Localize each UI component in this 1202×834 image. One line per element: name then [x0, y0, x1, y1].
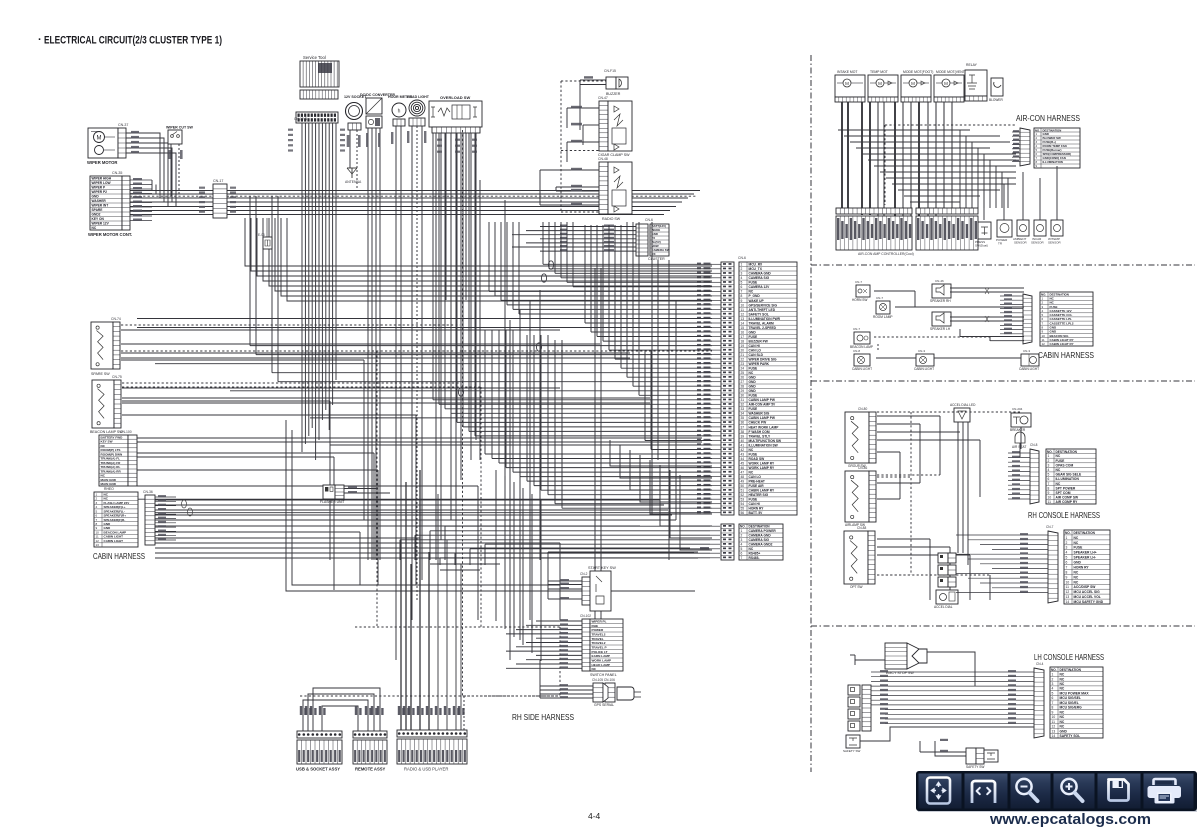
component: FLASHER UNIT: [323, 485, 335, 499]
svg-text:BATT. 5V: BATT. 5V: [749, 511, 764, 515]
svg-text:12: 12: [1052, 725, 1056, 729]
svg-text:CABIN HARNESS: CABIN HARNESS: [93, 552, 145, 561]
svg-text:CN-12 B: CN-12 B: [294, 117, 308, 121]
svg-text:1: 1: [1052, 673, 1054, 677]
svg-text:SWITCH PANEL: SWITCH PANEL: [590, 673, 617, 677]
svg-text:GND: GND: [92, 195, 100, 199]
svg-text:F WASH COM: F WASH COM: [749, 430, 770, 434]
svg-text:7: 7: [1052, 701, 1054, 705]
table: rh console destinations: [1046, 449, 1096, 504]
wire: wiper cut sw leads: [170, 144, 172, 196]
svg-text:1: 1: [741, 263, 743, 267]
svg-text:CAN LO: CAN LO: [749, 349, 762, 353]
svg-text:SENSOR: SENSOR: [1048, 241, 1062, 245]
svg-text:SPEAKER LH+: SPEAKER LH+: [1074, 551, 1097, 555]
svg-text:BEACON LAMP SW: BEACON LAMP SW: [90, 430, 123, 434]
svg-text:CN-105 CN-106: CN-105 CN-106: [592, 678, 615, 682]
wire: cluster pin stubs: [712, 263, 721, 265]
svg-text:35: 35: [741, 416, 745, 420]
svg-text:43: 43: [741, 452, 745, 456]
svg-text:8: 8: [1066, 570, 1068, 574]
svg-text:CN-17: CN-17: [213, 179, 223, 183]
svg-text:ELECTRICAL CIRCUIT(2/3 CLUSTER: ELECTRICAL CIRCUIT(2/3 CLUSTER TYPE 1): [44, 35, 222, 47]
wire: cigar clamp leads: [567, 107, 599, 109]
svg-text:NC: NC: [749, 470, 754, 474]
svg-text:53: 53: [741, 498, 745, 502]
svg-text:27: 27: [741, 380, 745, 384]
svg-text:CN-7: CN-7: [1046, 525, 1054, 529]
svg-text:CN-48: CN-48: [598, 157, 608, 161]
svg-text:DESTINATION: DESTINATION: [1060, 668, 1082, 672]
connector CN-211: [1020, 128, 1030, 166]
svg-text:10: 10: [1052, 715, 1056, 719]
svg-text:CABIN LIGHT: CABIN LIGHT: [104, 539, 124, 543]
svg-text:GND2: GND2: [92, 213, 101, 217]
svg-text:42: 42: [741, 448, 745, 452]
wire: sensor drops: [983, 190, 985, 220]
section divider dashed 1: [811, 264, 1195, 266]
wire dashed: aircon dashed box: [885, 124, 1016, 126]
svg-text:M: M: [911, 81, 915, 86]
svg-text:2: 2: [741, 267, 743, 271]
wire bus: left switch runs: [121, 324, 460, 326]
connector: EMCY STOP SW: [885, 643, 907, 669]
wire dashed: buzzer-cigar-radio dashed frame: [560, 81, 562, 212]
svg-text:WIPER CUT SW: WIPER CUT SW: [166, 126, 194, 130]
svg-text:CAMERA SIG: CAMERA SIG: [749, 276, 770, 280]
svg-text:WIPER P2: WIPER P2: [92, 190, 108, 194]
table: lh console destinations: [1050, 667, 1103, 738]
svg-text:7: 7: [741, 556, 743, 560]
svg-text:PRE-HEAT: PRE-HEAT: [749, 480, 765, 484]
svg-text:10: 10: [1048, 496, 1052, 500]
svg-text:NC: NC: [749, 371, 754, 375]
svg-text:1: 1: [1066, 536, 1068, 540]
wire bus: aircon risers to CN-211: [959, 130, 961, 208]
svg-text:56: 56: [741, 511, 745, 515]
svg-text:5: 5: [1066, 556, 1068, 560]
wire: service tool row ticks: [288, 129, 293, 131]
svg-text:39: 39: [741, 434, 745, 438]
svg-text:32: 32: [741, 403, 745, 407]
svg-text:9: 9: [741, 299, 743, 303]
svg-text:GND: GND: [749, 385, 757, 389]
svg-text:P_GND: P_GND: [749, 294, 761, 298]
svg-text:ILLUMINATION: ILLUMINATION: [1056, 477, 1080, 481]
svg-text:NC: NC: [1060, 677, 1065, 681]
svg-text:RS485-: RS485-: [749, 556, 760, 560]
svg-text:SW(Dual): SW(Dual): [975, 244, 988, 248]
svg-text:CABIN LIGHT: CABIN LIGHT: [1019, 367, 1039, 371]
svg-text:CN-37: CN-37: [118, 123, 128, 127]
svg-text:NC: NC: [1056, 468, 1061, 472]
svg-text:51: 51: [741, 489, 745, 493]
svg-text:M: M: [845, 81, 849, 86]
wire labels: bottom riser tags: [300, 706, 302, 715]
wire bus: left risers: [363, 360, 365, 520]
svg-text:47: 47: [741, 470, 745, 474]
svg-text:GPS SERIAL: GPS SERIAL: [594, 703, 614, 707]
svg-text:17: 17: [741, 335, 745, 339]
svg-text:NC: NC: [1060, 725, 1065, 729]
connector E-06: [263, 237, 272, 249]
svg-text:5: 5: [741, 547, 743, 551]
svg-text:CABIN LIGHT RY: CABIN LIGHT RY: [1050, 342, 1074, 346]
svg-text:HEAT WORK LAMP: HEAT WORK LAMP: [749, 425, 780, 429]
wire: socket leads: [349, 130, 351, 168]
svg-text:ROOM LAMP: ROOM LAMP: [873, 315, 892, 319]
svg-text:MCU ACCEL VOL: MCU ACCEL VOL: [1074, 595, 1101, 599]
svg-text:52: 52: [741, 493, 745, 497]
wire: wiper motor to bus: [126, 133, 160, 191]
svg-text:HORN RY: HORN RY: [1074, 566, 1090, 570]
svg-text:7: 7: [1048, 482, 1050, 486]
svg-text:OPAS COM: OPAS COM: [1056, 463, 1074, 467]
svg-text:CN-100: CN-100: [120, 430, 132, 434]
wire: radio sw leads: [540, 169, 599, 171]
switch: SAFETY SW lh: [846, 735, 860, 748]
svg-text:4-4: 4-4: [588, 811, 601, 821]
svg-text:MCU_TX: MCU_TX: [749, 267, 763, 271]
svg-text:SPARE: SPARE: [92, 208, 104, 212]
svg-text:8: 8: [1052, 706, 1054, 710]
svg-text:SPEAKER RH: SPEAKER RH: [930, 299, 951, 303]
svg-text:NC: NC: [749, 290, 754, 294]
svg-text:6: 6: [1052, 696, 1054, 700]
svg-text:M: M: [97, 136, 102, 142]
connector: RADIO & USB PLAYER: [397, 730, 467, 737]
switch: OPT SW: [844, 531, 868, 584]
svg-text:TRAVEL ALARM: TRAVEL ALARM: [749, 321, 775, 325]
svg-text:MCU SIG/SEL: MCU SIG/SEL: [1060, 696, 1081, 700]
wire bus: rh console wiring: [877, 415, 940, 417]
svg-text:AIR SEAT: AIR SEAT: [1012, 445, 1026, 449]
switch: SPARE SW: [91, 322, 113, 369]
svg-text:SENSOR: SENSOR: [1031, 241, 1045, 245]
svg-text:37: 37: [741, 425, 745, 429]
motor M1 wiper motor: [88, 128, 118, 158]
svg-text:3: 3: [1066, 546, 1068, 550]
svg-text:DESTINATION: DESTINATION: [749, 525, 771, 529]
svg-text:FUSE: FUSE: [749, 335, 759, 339]
svg-text:FUSE: FUSE: [749, 367, 759, 371]
svg-text:NC: NC: [1074, 575, 1079, 579]
svg-text:NC: NC: [1060, 715, 1065, 719]
svg-text:16: 16: [741, 330, 745, 334]
connector CN-12B: [296, 112, 338, 123]
speaker: SPEAKER LH: [932, 312, 951, 326]
svg-text:23: 23: [741, 362, 745, 366]
svg-text:RS485+: RS485+: [749, 552, 761, 556]
toolbar icon: print: [1154, 779, 1176, 785]
svg-text:BUZZER PW: BUZZER PW: [749, 339, 769, 343]
svg-text:50: 50: [741, 484, 745, 488]
svg-text:CN-36: CN-36: [143, 490, 153, 494]
svg-text:RADIO & USB PLAYER: RADIO & USB PLAYER: [404, 767, 448, 772]
svg-text:GPS/SERVICE SIG: GPS/SERVICE SIG: [749, 303, 778, 307]
svg-text:CN-6: CN-6: [645, 218, 653, 222]
svg-text:OVERLOAD SW: OVERLOAD SW: [440, 95, 470, 100]
wire bus: cabin section wiring: [874, 290, 915, 292]
wire dashed: rh console dashed frame: [910, 412, 912, 575]
svg-text:WIPER PARK: WIPER PARK: [749, 362, 770, 366]
svg-text:CN-74: CN-74: [111, 317, 121, 321]
svg-text:HEATER SIG: HEATER SIG: [749, 493, 769, 497]
svg-text:45: 45: [741, 461, 745, 465]
svg-text:REMOTE ASSY: REMOTE ASSY: [355, 767, 386, 772]
svg-text:NC: NC: [1056, 454, 1061, 458]
antenna symbol: [351, 168, 353, 178]
svg-text:CAMERA SIG: CAMERA SIG: [749, 538, 770, 542]
svg-text:ACCEL DIAL: ACCEL DIAL: [934, 605, 953, 609]
svg-text:9: 9: [1048, 491, 1050, 495]
svg-text:4: 4: [1048, 468, 1050, 472]
svg-text:CN-35: CN-35: [112, 171, 122, 175]
wire: flasher leads: [344, 488, 378, 490]
svg-text:ACC/DISP SW: ACC/DISP SW: [1074, 585, 1097, 589]
wire: cabin table leads: [155, 496, 176, 498]
svg-text:7: 7: [741, 290, 743, 294]
svg-text:DESTINATION: DESTINATION: [1074, 531, 1096, 535]
wire: rh console risers: [899, 452, 901, 499]
connector: USB & SOCKET ASSY: [297, 731, 342, 738]
wire bus: rh-side elbow staircase: [610, 440, 712, 466]
svg-text:2: 2: [1052, 677, 1054, 681]
svg-text:ILLUMINATION SW: ILLUMINATION SW: [749, 443, 779, 447]
svg-text:NC: NC: [1074, 580, 1079, 584]
svg-text:WORK LAMP RY: WORK LAMP RY: [749, 461, 775, 465]
svg-text:GND: GND: [749, 330, 757, 334]
toolbar icon: fit page: [927, 778, 950, 804]
svg-text:2: 2: [1048, 459, 1050, 463]
svg-text:NC: NC: [1060, 673, 1065, 677]
svg-text:NC: NC: [1060, 710, 1065, 714]
svg-text:20: 20: [741, 349, 745, 353]
svg-text:NO.: NO.: [1051, 668, 1057, 672]
svg-text:WIPER MOTOR CONT.: WIPER MOTOR CONT.: [88, 232, 132, 237]
svg-text:MCU POWER MAX: MCU POWER MAX: [1060, 692, 1090, 696]
wire: emcy leads: [855, 659, 885, 661]
svg-text:3: 3: [741, 538, 743, 542]
wire dashed: lower dashed runs: [355, 626, 560, 628]
svg-text:ANTI-THEFT LED: ANTI-THEFT LED: [749, 308, 776, 312]
svg-text:CN-8: CN-8: [853, 349, 860, 353]
svg-text:CN-7: CN-7: [876, 296, 883, 300]
svg-text:22: 22: [741, 358, 745, 362]
svg-text:33: 33: [741, 407, 745, 411]
svg-text:FUSE: FUSE: [1056, 459, 1066, 463]
svg-text:CABIN LIGHT: CABIN LIGHT: [914, 367, 934, 371]
svg-text:41: 41: [741, 443, 745, 447]
svg-text:BLOWER: BLOWER: [989, 98, 1004, 102]
svg-text:FUSE AIR: FUSE AIR: [749, 484, 765, 488]
svg-text:CN-2: CN-2: [580, 572, 588, 576]
svg-text:AIR-CON AMP CONTROLLER(Cool): AIR-CON AMP CONTROLLER(Cool): [858, 252, 914, 256]
wire: camera pin stubs: [710, 525, 720, 527]
svg-text:CN-8: CN-8: [1030, 443, 1038, 447]
svg-text:12: 12: [1066, 590, 1070, 594]
wire loops: twisted pair marks: [548, 261, 553, 269]
svg-text:5: 5: [1048, 473, 1050, 477]
svg-text:CN-F15: CN-F15: [604, 69, 616, 73]
sensor: INCAR SENSOR: [1034, 220, 1046, 236]
svg-text:GND: GND: [1074, 561, 1082, 565]
switch: GROUP SW: [845, 412, 869, 463]
svg-text:·: ·: [38, 34, 42, 46]
svg-text:TRAVEL2: TRAVEL2: [592, 641, 606, 645]
connector CN-40: [1023, 294, 1032, 344]
wire: safety sw leads2: [920, 751, 966, 753]
svg-text:MODE MOT(FOOT): MODE MOT(FOOT): [903, 70, 933, 74]
table: cabin harness destinations (right): [1040, 292, 1093, 346]
svg-text:CABIN LAMP PW: CABIN LAMP PW: [749, 398, 776, 402]
svg-text:MAIN GND: MAIN GND: [101, 482, 117, 486]
svg-text:AIR-CON AMP 5V: AIR-CON AMP 5V: [749, 403, 777, 407]
svg-text:ILLUMINATION: ILLUMINATION: [1043, 160, 1063, 164]
component: BLOWER: [991, 78, 1003, 96]
svg-text:ROAD SW: ROAD SW: [749, 457, 766, 461]
svg-text:CN-6: CN-6: [738, 256, 746, 260]
wire bus: lower horizontals: [548, 551, 698, 553]
wire: big loop wire: [286, 420, 695, 591]
connector strip below service tool: [300, 90, 338, 99]
svg-text:AIR COMP SW: AIR COMP SW: [1056, 496, 1080, 500]
svg-text:5: 5: [1052, 692, 1054, 696]
svg-text:1: 1: [741, 529, 743, 533]
svg-text:NC: NC: [1074, 536, 1079, 540]
toolbar icon: save floppy: [1109, 780, 1129, 801]
svg-text:3: 3: [741, 272, 743, 276]
svg-text:CAMERA POWER: CAMERA POWER: [749, 529, 777, 533]
svg-text:38: 38: [741, 430, 745, 434]
svg-text:NC: NC: [592, 667, 597, 671]
svg-text:13: 13: [96, 543, 100, 547]
svg-text:GND: GND: [749, 389, 757, 393]
connector CN-36: [145, 495, 155, 545]
svg-text:CN-46: CN-46: [935, 279, 944, 283]
svg-text:CABIN LAMP PW: CABIN LAMP PW: [749, 416, 776, 420]
wire: head light leads: [411, 126, 413, 620]
switch: BEACON LAMP SW: [92, 380, 114, 428]
toolbar background: [916, 771, 1197, 811]
svg-text:WIPER DRIVE SIG: WIPER DRIVE SIG: [749, 358, 777, 362]
svg-text:WIPER P: WIPER P: [92, 186, 107, 190]
svg-text:13: 13: [1066, 595, 1070, 599]
wire: buzzer leads: [580, 79, 606, 81]
svg-text:FUSE: FUSE: [749, 394, 759, 398]
connector table: RHEO: [99, 435, 128, 486]
svg-text:CN-3: CN-3: [1023, 349, 1030, 353]
svg-text:WIPER HIGH: WIPER HIGH: [92, 177, 112, 181]
svg-text:SENSOR: SENSOR: [1014, 241, 1028, 245]
svg-text:CHECK PW: CHECK PW: [749, 421, 768, 425]
svg-text:NC: NC: [749, 547, 754, 551]
svg-text:14: 14: [1066, 600, 1070, 604]
svg-text:M: M: [878, 81, 882, 86]
svg-text:WIPER MOTOR: WIPER MOTOR: [87, 160, 117, 165]
svg-text:DESTINATION: DESTINATION: [1056, 450, 1078, 454]
svg-text:RH SIDE HARNESS: RH SIDE HARNESS: [512, 713, 574, 722]
svg-text:31: 31: [741, 398, 745, 402]
svg-text:START KEY SW: START KEY SW: [588, 566, 616, 570]
svg-text:30: 30: [741, 394, 745, 398]
svg-text:NC: NC: [1074, 541, 1079, 545]
svg-text:WASHER: WASHER: [92, 199, 107, 203]
svg-text:TEMP MOT: TEMP MOT: [870, 70, 888, 74]
component: AIR SEAT: [1015, 432, 1025, 443]
connector table: WIPER MOTOR CONT: [90, 176, 122, 230]
wire: cn211 pin stubs: [1012, 131, 1020, 133]
svg-text:3: 3: [1052, 682, 1054, 686]
svg-text:4: 4: [1052, 687, 1054, 691]
wire bus: lh console feeds: [871, 671, 1034, 673]
svg-text:NC: NC: [1074, 570, 1079, 574]
svg-text:SPEAKER LH-: SPEAKER LH-: [1074, 556, 1096, 560]
svg-text:4: 4: [741, 543, 743, 547]
svg-text:5: 5: [741, 281, 743, 285]
switch: AIRLAMP SW: [845, 471, 869, 522]
svg-text:CN-7: CN-7: [853, 327, 860, 331]
svg-text:SPT POWER: SPT POWER: [1056, 486, 1076, 490]
wire: safety sw run: [860, 727, 1034, 741]
svg-text:25: 25: [741, 371, 745, 375]
pin numbers: cluster pin column marks: [723, 263, 726, 265]
svg-text:NC: NC: [1060, 720, 1065, 724]
wire: radio player risers: [400, 540, 402, 730]
svg-text:E-06: E-06: [258, 233, 265, 237]
svg-text:GND: GND: [749, 380, 757, 384]
svg-text:WIPER 12V: WIPER 12V: [92, 222, 110, 226]
svg-text:RADIO SW: RADIO SW: [602, 217, 621, 221]
svg-text:9: 9: [1052, 710, 1054, 714]
wire: cont risers: [151, 180, 153, 191]
table: aircon destinations: [1034, 128, 1080, 168]
svg-text:21: 21: [741, 353, 745, 357]
connector: AIR-CON AMP CONTROLLER B: [916, 208, 978, 214]
wire: usb-remote jumper arcs: [303, 700, 368, 731]
connector CN-5 camera: [721, 524, 734, 560]
svg-text:6: 6: [741, 285, 743, 289]
svg-text:INTAKE MOT: INTAKE MOT: [837, 70, 857, 74]
connector: REMOTE ASSY: [353, 731, 387, 738]
svg-text:BREAKER: BREAKER: [1010, 428, 1026, 432]
svg-text:FLASHER UNIT: FLASHER UNIT: [320, 500, 345, 504]
section divider dashed 3: [811, 625, 1195, 627]
svg-text:10: 10: [1066, 580, 1070, 584]
svg-text:ACCEL DIAL LED: ACCEL DIAL LED: [950, 403, 976, 407]
svg-text:NC: NC: [1056, 482, 1061, 486]
svg-text:SPT COM: SPT COM: [1056, 491, 1071, 495]
svg-text:13: 13: [741, 317, 745, 321]
connector CN-17 wiper motor pins: [118, 128, 126, 158]
svg-text:CN-47: CN-47: [598, 96, 608, 100]
svg-text:CN-86: CN-86: [858, 466, 867, 470]
wire dashed: mid dashed crossers: [121, 350, 712, 352]
toolbar icon: zoom out: [1016, 779, 1031, 794]
component: POWER TR: [997, 220, 1012, 237]
svg-text:11: 11: [1048, 500, 1052, 504]
toolbar icon: fit width: [972, 781, 995, 803]
svg-text:11: 11: [1052, 720, 1056, 724]
svg-text:HORN RY: HORN RY: [749, 507, 765, 511]
svg-text:WIPER INT: WIPER INT: [92, 204, 109, 208]
svg-text:CN-102: CN-102: [580, 614, 591, 618]
svg-text:MCU_RX: MCU_RX: [749, 263, 764, 267]
svg-text:GND: GND: [749, 376, 757, 380]
wire bus: wiper motor harness horizontal lines: [130, 190, 213, 192]
svg-text:FUSE: FUSE: [749, 281, 759, 285]
wire dashed: vertical feeder: [462, 130, 464, 696]
